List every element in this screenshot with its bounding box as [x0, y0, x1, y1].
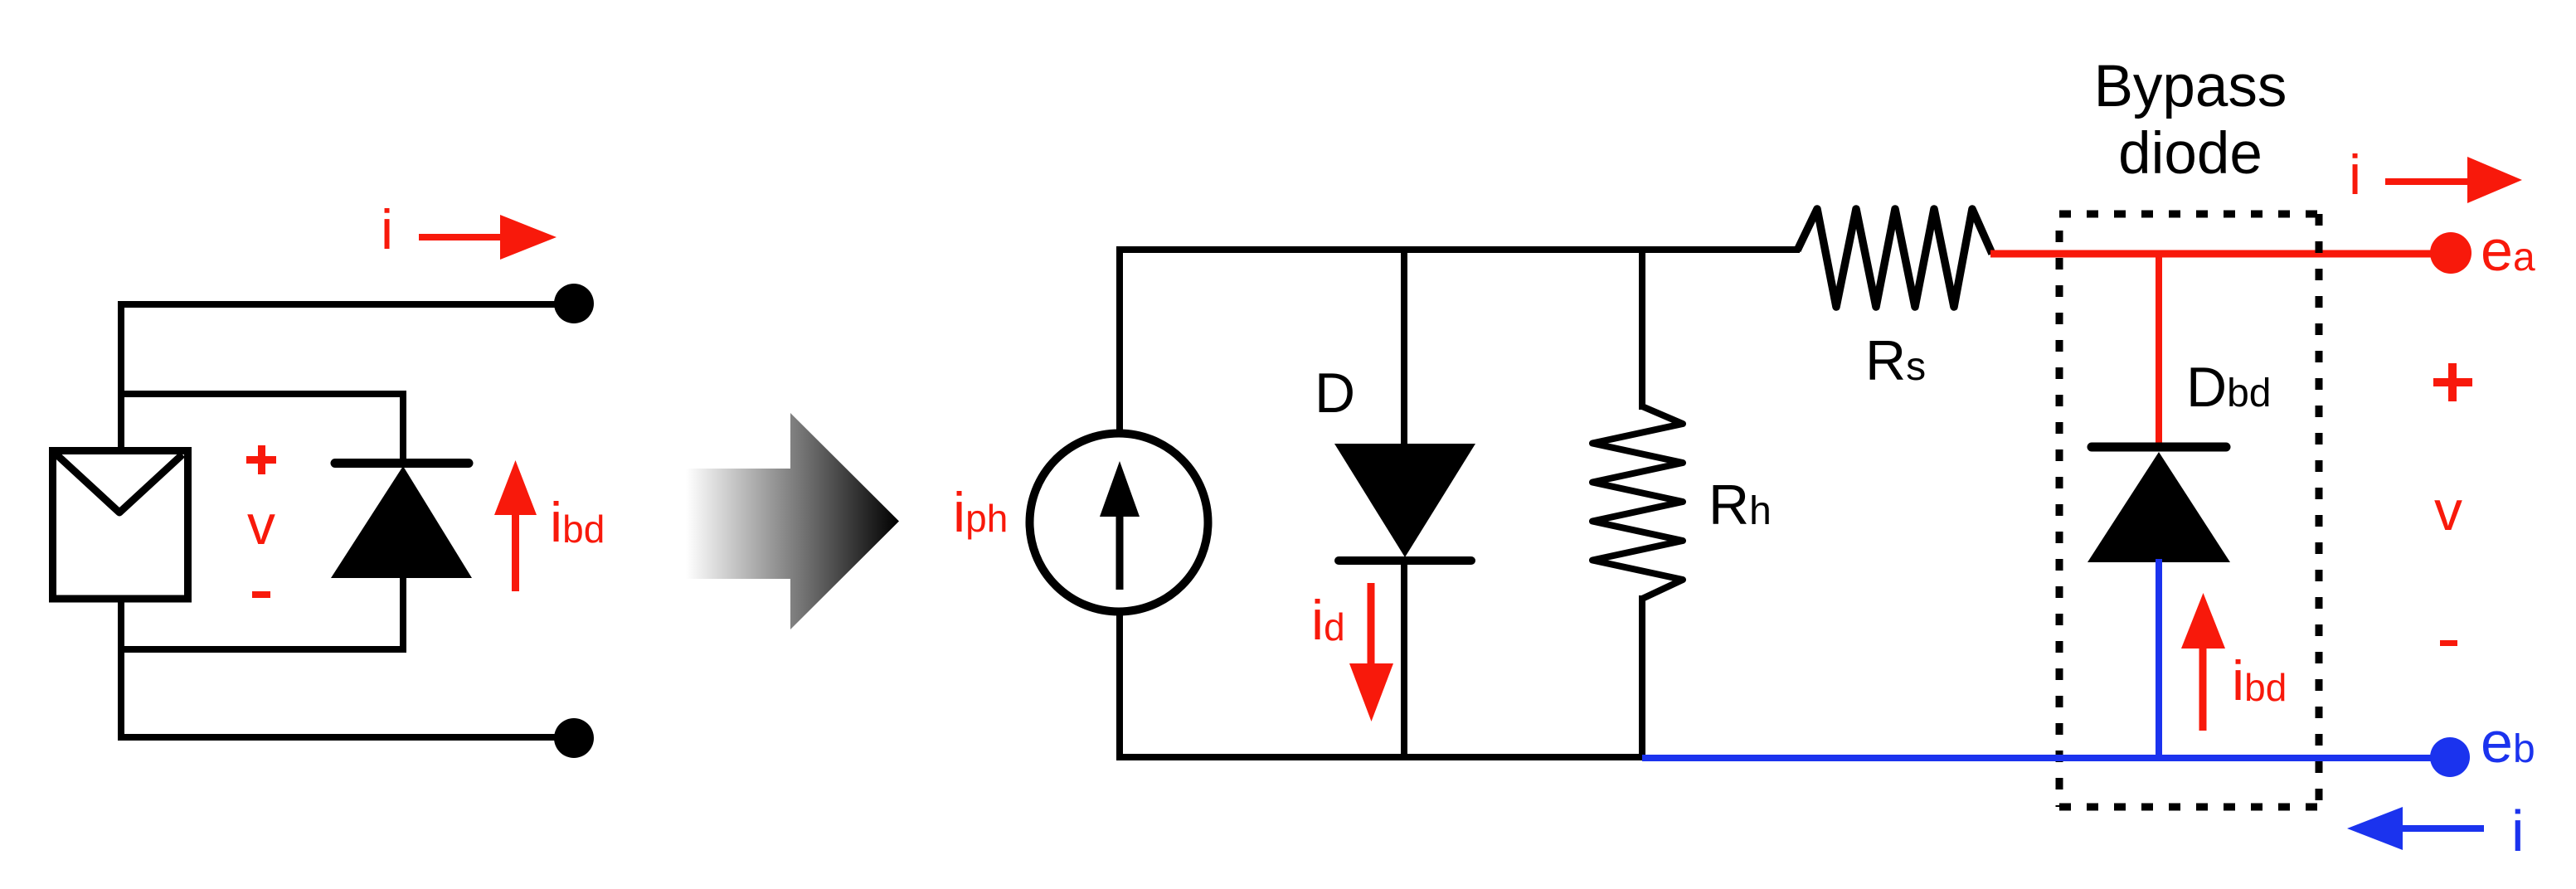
- svg-text:i: i: [2511, 799, 2525, 863]
- wire left vertical below solar cell: [118, 597, 124, 741]
- wire inner loop top: [118, 391, 403, 397]
- svg-text:i: i: [2349, 143, 2361, 206]
- arrow i (red, pointing right, top): [2385, 157, 2522, 203]
- wire resistor Rh branch upper: [1639, 246, 1645, 410]
- bypass diode box (dashed): [2059, 214, 2319, 807]
- svg-text:diode: diode: [2118, 121, 2263, 187]
- label - (polarity): [252, 591, 270, 598]
- solar cell chevron: [56, 454, 182, 513]
- arrow id (red, down): [1349, 583, 1393, 721]
- wire diode branch upper: [400, 391, 406, 464]
- wire red vertical (to bypass diode Dbd): [2156, 254, 2162, 448]
- big gradient arrow: [686, 413, 899, 629]
- resistor Rh zigzag: [1592, 406, 1683, 599]
- wire left vertical (top wire to solar cell): [118, 301, 124, 454]
- diode D cathode bar: [1339, 556, 1471, 565]
- arrow ibd (red, up, left diagram): [494, 460, 537, 591]
- node terminal bottom (black dot): [554, 718, 594, 758]
- current source iph (circle): [1030, 434, 1208, 612]
- wire diode D branch upper: [1401, 246, 1407, 448]
- wire top horizontal (left circuit): [118, 301, 574, 308]
- diode Dbd cathode bar: [2092, 443, 2226, 452]
- wire resistor Rh branch lower: [1639, 595, 1645, 760]
- wire diode D branch lower: [1401, 561, 1407, 760]
- node terminal top (black dot): [554, 284, 594, 323]
- node terminal ea (red dot): [2430, 232, 2472, 274]
- wire red top (Rs to terminal ea): [1990, 250, 2451, 258]
- label + (right, red): [2433, 363, 2472, 401]
- wire blue vertical (Dbd to bottom wire): [2156, 559, 2162, 760]
- wire diode branch lower: [400, 575, 406, 653]
- diode D triangle (pointing down): [1334, 444, 1475, 557]
- arrow for current i (red, pointing right): [419, 215, 557, 260]
- diode triangle (left bypass diode, pointing up): [331, 466, 472, 578]
- wire top horizontal (main): [1116, 246, 1800, 253]
- svg-text:D: D: [1315, 362, 1355, 425]
- wire bottom horizontal (left circuit): [118, 734, 574, 741]
- diode Dbd triangle (pointing up): [2088, 452, 2230, 562]
- wire left vertical upper (to current source): [1116, 246, 1123, 435]
- solar cell symbol (square): [53, 451, 188, 600]
- wire inner loop bottom: [118, 646, 406, 653]
- wire blue bottom (to terminal eb): [1642, 755, 2450, 761]
- arrow ibd (red, up, right schematic): [2181, 593, 2225, 731]
- svg-text:i: i: [381, 198, 393, 261]
- label + (polarity): [246, 445, 276, 474]
- wire left vertical lower (current source to bottom): [1116, 610, 1123, 760]
- resistor Rs zigzag: [1797, 209, 1992, 307]
- arrow i (blue, pointing left, bottom): [2347, 807, 2484, 850]
- label - (right, red): [2440, 640, 2457, 646]
- svg-text:v: v: [247, 493, 275, 556]
- svg-text:Bypass: Bypass: [2094, 54, 2287, 119]
- svg-text:v: v: [2434, 479, 2462, 542]
- current source arrow (up): [1100, 461, 1140, 590]
- wire bottom horizontal black (main): [1116, 754, 1645, 760]
- diode cathode bar (left bypass diode): [335, 459, 469, 468]
- node terminal eb (blue dot): [2430, 737, 2470, 777]
